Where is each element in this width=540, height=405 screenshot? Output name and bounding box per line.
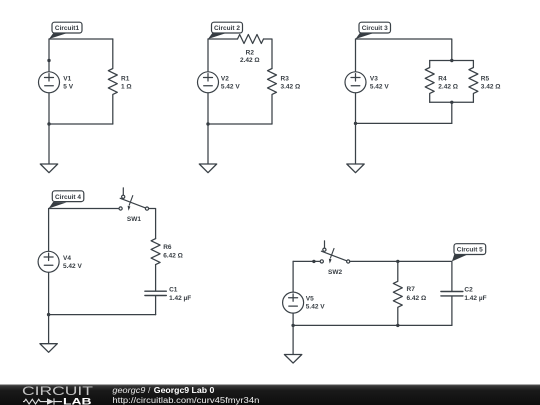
footer bar background bbox=[0, 385, 540, 405]
resistor R5 bbox=[469, 61, 478, 103]
svg-text:R1: R1 bbox=[121, 76, 130, 83]
voltage source V5 bbox=[283, 292, 304, 313]
capacitor C2 bbox=[441, 292, 463, 296]
svg-text:C2: C2 bbox=[464, 287, 473, 294]
resistor R6 bbox=[151, 239, 160, 265]
label callout Circuit 2 bbox=[208, 22, 243, 39]
svg-text:5.42 V: 5.42 V bbox=[306, 304, 325, 311]
wire below V1 bbox=[48, 93, 50, 124]
label R4 value bbox=[438, 76, 458, 91]
ground circuit4 bbox=[40, 344, 57, 353]
label V1 value bbox=[63, 75, 73, 90]
svg-text:R7: R7 bbox=[407, 286, 416, 293]
svg-text:1.42 µF: 1.42 µF bbox=[464, 295, 486, 302]
logo resistor-diode squiggle bbox=[23, 398, 62, 404]
wire top-left circuit5 bbox=[293, 260, 320, 262]
label R1 value bbox=[121, 76, 132, 91]
label callout Circuit1 bbox=[49, 22, 82, 39]
resistor R1 bbox=[108, 39, 117, 124]
label C1 value bbox=[169, 287, 191, 302]
wire top-right circuit2 bbox=[264, 39, 273, 69]
wire ground stem circuit4 bbox=[48, 315, 50, 344]
wire ground stem circuit1 bbox=[48, 124, 50, 164]
wire left vertical circuit5 bbox=[292, 261, 294, 291]
svg-text:2.42 Ω: 2.42 Ω bbox=[438, 83, 458, 90]
wire top-left circuit2 bbox=[208, 38, 238, 40]
ground circuit2 bbox=[199, 164, 216, 173]
svg-text:Circuit 4: Circuit 4 bbox=[55, 194, 81, 201]
wire bottom rail circuit1 bbox=[49, 123, 113, 125]
wire bottom rail circuit4 bbox=[49, 314, 156, 316]
capacitor C1 bbox=[145, 291, 166, 295]
resistor R2 bbox=[238, 35, 264, 44]
wire bottom rail circuit5 bbox=[293, 324, 452, 326]
wire ground stem circuit2 bbox=[207, 124, 209, 164]
label R2 value bbox=[240, 49, 260, 64]
node A circuit1 bbox=[47, 59, 50, 62]
label V2 value bbox=[221, 75, 240, 90]
label SW1 bbox=[127, 216, 141, 223]
wire top rail circuit1 bbox=[49, 38, 113, 40]
node bottom circuit3 bbox=[354, 122, 357, 125]
node top parallel circuit3 bbox=[450, 59, 453, 62]
svg-text:R6: R6 bbox=[163, 244, 172, 251]
label callout Circuit 4 bbox=[49, 191, 84, 209]
wire below V3 bbox=[355, 93, 357, 124]
label R7 value bbox=[407, 286, 427, 302]
voltage source V3 bbox=[345, 72, 366, 93]
svg-text:5.42 V: 5.42 V bbox=[370, 83, 389, 90]
svg-text:V4: V4 bbox=[63, 255, 71, 262]
svg-text:5.42 V: 5.42 V bbox=[221, 83, 240, 90]
svg-text:R4: R4 bbox=[438, 76, 447, 83]
resistor R3 bbox=[268, 69, 277, 125]
node before SW2 bbox=[312, 260, 315, 263]
ground circuit1 bbox=[40, 164, 57, 173]
node bottom circuit4 bbox=[47, 313, 50, 316]
wire switch to C2 corner circuit5 bbox=[350, 261, 452, 291]
svg-text:R5: R5 bbox=[481, 76, 490, 83]
label R5 value bbox=[481, 76, 501, 91]
logo CIRCUIT text bbox=[22, 384, 94, 398]
svg-text:V5: V5 bbox=[306, 296, 314, 303]
svg-text:Circuit 3: Circuit 3 bbox=[362, 25, 388, 32]
svg-text:6.42 Ω: 6.42 Ω bbox=[407, 295, 427, 302]
svg-text:V2: V2 bbox=[221, 75, 229, 82]
label SW2 bbox=[328, 269, 342, 276]
svg-text:2.42 Ω: 2.42 Ω bbox=[240, 57, 260, 64]
wire ground stem circuit3 bbox=[355, 123, 357, 164]
footer url line bbox=[112, 395, 259, 405]
wire parallel bottom bracket circuit3 bbox=[430, 101, 474, 103]
svg-text:Circuit1: Circuit1 bbox=[55, 25, 80, 32]
logo LAB text bbox=[63, 396, 92, 405]
ground circuit5 bbox=[284, 355, 301, 364]
wire left vertical circuit2 bbox=[207, 39, 209, 72]
svg-text:C1: C1 bbox=[169, 287, 178, 294]
wire left vertical circuit4 bbox=[48, 209, 50, 252]
svg-text:Georgc9 Lab 0: Georgc9 Lab 0 bbox=[154, 385, 215, 395]
label V5 value bbox=[306, 296, 325, 311]
resistor R4 bbox=[425, 61, 434, 103]
label callout Circuit 5 bbox=[452, 244, 486, 262]
wire switch to corner circuit4 bbox=[149, 209, 156, 239]
wire below V2 bbox=[207, 93, 209, 124]
label C2 value bbox=[464, 287, 486, 302]
label V3 value bbox=[370, 75, 389, 90]
svg-text:R3: R3 bbox=[281, 76, 290, 83]
wire bottom rail circuit2 bbox=[208, 123, 272, 125]
svg-text:Circuit 2: Circuit 2 bbox=[214, 25, 240, 32]
voltage source V1 bbox=[39, 72, 60, 93]
node bottom R7 circuit5 bbox=[396, 324, 399, 327]
node bottom parallel circuit3 bbox=[450, 101, 453, 104]
wire below V4 bbox=[48, 272, 50, 314]
resistor R7 bbox=[393, 261, 402, 325]
svg-text:1 Ω: 1 Ω bbox=[121, 83, 132, 90]
svg-text:5 V: 5 V bbox=[63, 83, 73, 90]
wire R6 to C1 bbox=[155, 265, 157, 291]
switch SW1 bbox=[119, 188, 149, 211]
node R7 top bbox=[396, 260, 399, 263]
wire below V5 bbox=[292, 313, 294, 325]
svg-text:SW1: SW1 bbox=[127, 216, 141, 223]
svg-text:LAB: LAB bbox=[63, 396, 92, 405]
label R3 value bbox=[281, 76, 301, 91]
wire top rail circuit3 bbox=[356, 39, 452, 61]
voltage source V4 bbox=[38, 251, 59, 272]
wire left vertical circuit3 bbox=[355, 39, 357, 72]
wire parallel top bracket circuit3 bbox=[430, 60, 474, 62]
node bottom circuit1 bbox=[47, 122, 50, 125]
voltage source V2 bbox=[198, 72, 219, 93]
switch SW2 bbox=[320, 241, 350, 264]
wire down from bracket circuit3 bbox=[451, 102, 453, 123]
svg-text:V3: V3 bbox=[370, 75, 378, 82]
node bottom circuit2 bbox=[206, 122, 209, 125]
svg-text:1.42 µF: 1.42 µF bbox=[169, 295, 191, 302]
svg-text:5.42 V: 5.42 V bbox=[63, 263, 82, 270]
wire C2 to bottom bbox=[451, 296, 453, 325]
footer title line bbox=[112, 385, 214, 395]
wire top-left circuit4 bbox=[49, 208, 120, 210]
label R6 value bbox=[163, 244, 183, 260]
wire bottom rail circuit3 bbox=[356, 122, 452, 124]
svg-text:3.42 Ω: 3.42 Ω bbox=[481, 83, 501, 90]
svg-text:V1: V1 bbox=[63, 75, 71, 82]
svg-text:http://circuitlab.com/curv45fm: http://circuitlab.com/curv45fmyr34n bbox=[112, 395, 259, 405]
label V4 value bbox=[63, 255, 82, 270]
svg-text:R2: R2 bbox=[246, 49, 255, 56]
svg-text:georgc9: georgc9 bbox=[112, 385, 145, 395]
wire left vertical circuit1 bbox=[48, 39, 50, 72]
svg-text:3.42 Ω: 3.42 Ω bbox=[281, 83, 301, 90]
node bottom left circuit5 bbox=[291, 324, 294, 327]
wire C1 to bottom bbox=[155, 296, 157, 315]
svg-text:6.42 Ω: 6.42 Ω bbox=[163, 253, 183, 260]
label callout Circuit 3 bbox=[356, 22, 391, 39]
ground circuit3 bbox=[347, 164, 364, 173]
svg-text:SW2: SW2 bbox=[328, 269, 342, 276]
wire ground stem circuit5 bbox=[292, 325, 294, 354]
svg-text:Circuit 5: Circuit 5 bbox=[457, 247, 483, 254]
